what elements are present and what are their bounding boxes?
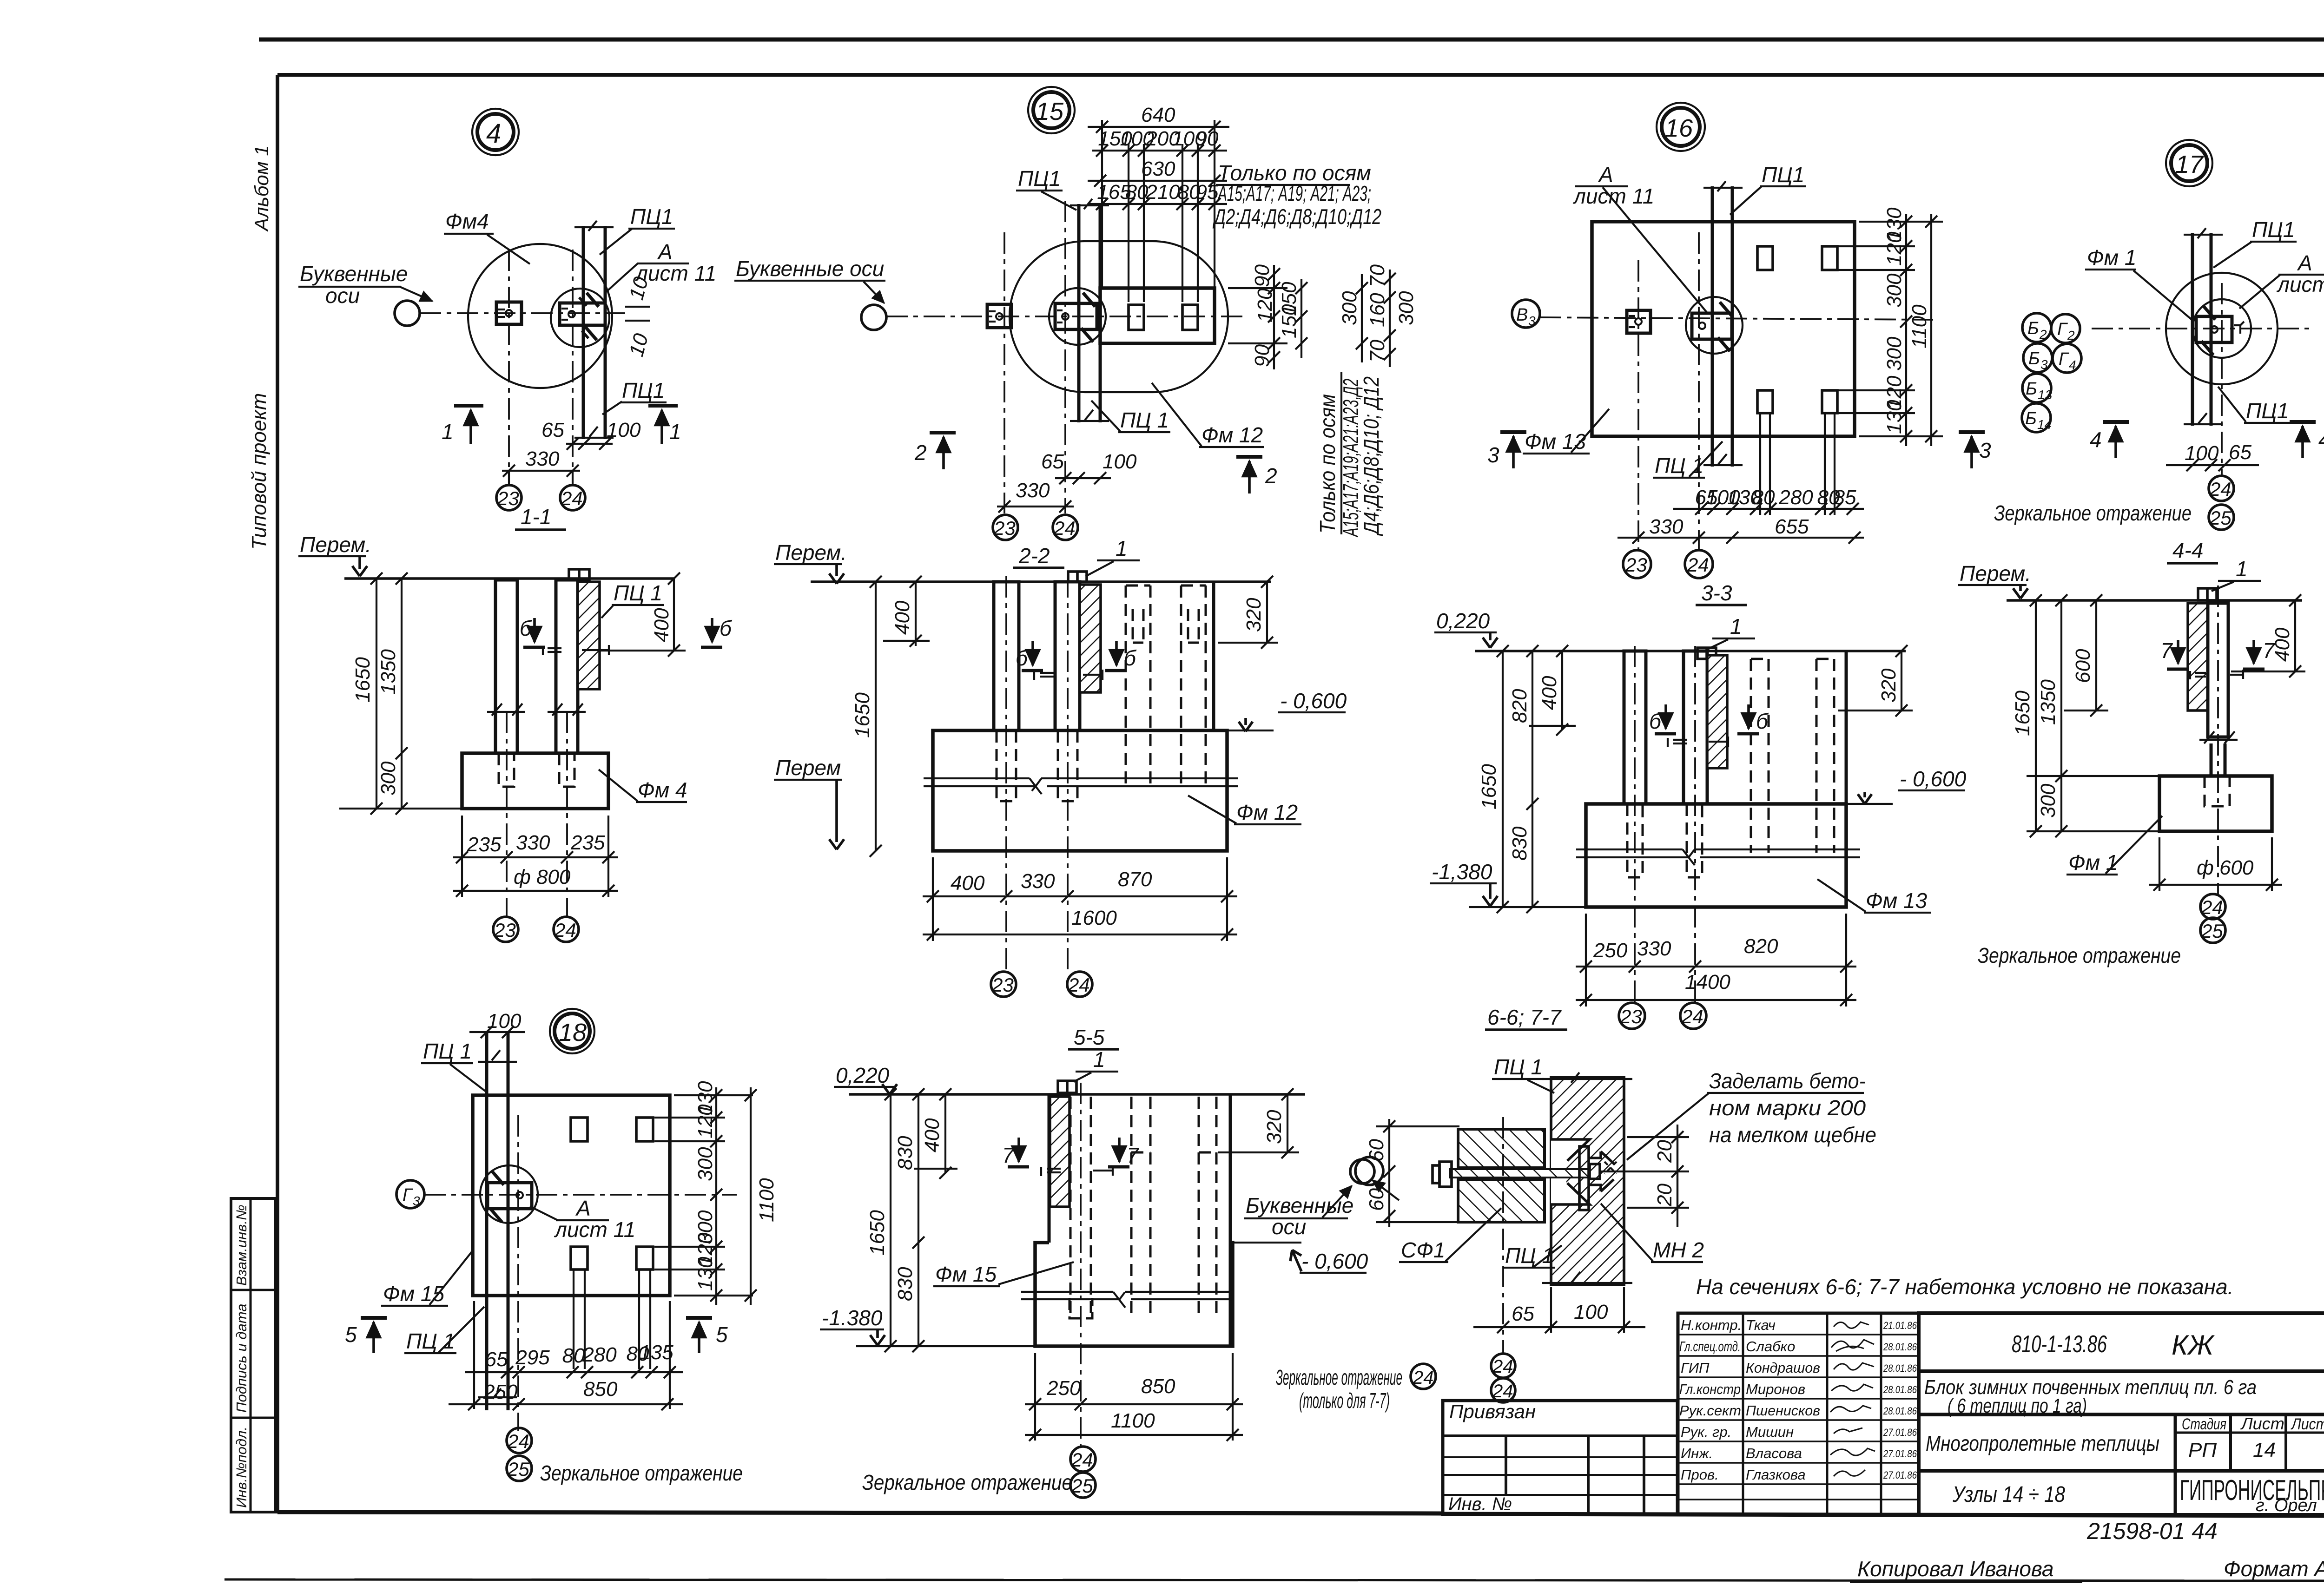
bottom dims	[1034, 1353, 1036, 1441]
svg-text:1650: 1650	[2011, 691, 2034, 736]
anchor slots dashed	[1627, 804, 1643, 877]
svg-text:Б: Б	[2025, 409, 2037, 428]
svg-text:24: 24	[1071, 1449, 1093, 1471]
svg-text:лист 11: лист 11	[1572, 184, 1654, 208]
svg-text:-1.380: -1.380	[822, 1306, 883, 1330]
svg-text:24: 24	[1492, 1381, 1513, 1401]
svg-text:5-5: 5-5	[1074, 1025, 1105, 1049]
svg-text:24: 24	[1681, 1006, 1703, 1027]
svg-text:28.01.86: 28.01.86	[1883, 1405, 1917, 1417]
svg-text:2: 2	[2039, 327, 2047, 342]
svg-text:27.01.86: 27.01.86	[1883, 1469, 1917, 1481]
joint symbols	[2190, 670, 2243, 679]
svg-text:16: 16	[1665, 114, 1693, 142]
svg-text:400: 400	[650, 608, 673, 642]
axis	[2217, 585, 2219, 895]
bolt rod	[1450, 1169, 1590, 1178]
svg-text:ПЦ1: ПЦ1	[2252, 217, 2295, 242]
svg-text:Гл.спец.отд.: Гл.спец.отд.	[1679, 1338, 1741, 1355]
svg-text:1: 1	[2236, 557, 2248, 581]
svg-text:235: 235	[467, 833, 502, 856]
axis bubbles	[493, 917, 518, 942]
svg-text:300: 300	[694, 1147, 717, 1181]
svg-text:4: 4	[486, 118, 501, 149]
svg-text:5: 5	[345, 1322, 357, 1347]
svg-text:300: 300	[1883, 336, 1906, 371]
bottom dims	[1585, 914, 1587, 1007]
СФ1 block hatched	[1458, 1129, 1545, 1168]
joint symbols	[1041, 1165, 1113, 1176]
svg-text:Инж.: Инж.	[1681, 1445, 1713, 1461]
svg-text:250: 250	[1046, 1377, 1081, 1400]
svg-text:б: б	[1649, 709, 1662, 733]
svg-text:Б: Б	[2026, 379, 2037, 399]
svg-text:Фм 12: Фм 12	[1236, 800, 1298, 824]
svg-text:Фм 12: Фм 12	[1202, 423, 1263, 447]
svg-text:1400: 1400	[1685, 971, 1730, 993]
svg-text:85: 85	[1834, 486, 1856, 509]
svg-text:135: 135	[639, 1341, 673, 1364]
svg-text:90: 90	[1196, 127, 1219, 150]
svg-text:24: 24	[554, 919, 576, 941]
svg-text:СФ1: СФ1	[1401, 1238, 1445, 1262]
svg-text:ф 800: ф 800	[514, 866, 571, 888]
svg-text:на мелком щебне: на мелком щебне	[1709, 1123, 1876, 1147]
footing	[933, 730, 1227, 851]
anchor square left	[496, 302, 522, 324]
svg-text:Заделать бето-: Заделать бето-	[1709, 1069, 1866, 1093]
svg-text:- 0,600: - 0,600	[1280, 689, 1347, 713]
svg-text:Пшенисков: Пшенисков	[1746, 1402, 1820, 1419]
svg-text:65: 65	[2229, 441, 2251, 464]
detail circle	[480, 1165, 538, 1223]
svg-text:120: 120	[1254, 288, 1276, 322]
axis bubble left	[861, 305, 886, 330]
svg-text:Г: Г	[2059, 349, 2070, 369]
svg-text:лист 11: лист 11	[2276, 272, 2324, 296]
footing	[2159, 776, 2272, 831]
svg-text:295: 295	[515, 1346, 550, 1369]
bottom dim chain	[1695, 486, 1856, 509]
svg-text:3-3: 3-3	[1701, 581, 1732, 605]
top outer rule	[259, 38, 2324, 42]
svg-text:7: 7	[2160, 638, 2173, 663]
bottom dims	[461, 816, 463, 897]
svg-text:640: 640	[1141, 104, 1175, 126]
svg-text:Фм 13: Фм 13	[1525, 429, 1586, 454]
anchor square left	[987, 304, 1011, 328]
svg-text:ГИП: ГИП	[1681, 1360, 1710, 1376]
svg-text:ПЦ 1: ПЦ 1	[423, 1039, 472, 1063]
svg-text:820: 820	[1508, 689, 1531, 723]
svg-text:7: 7	[1002, 1143, 1015, 1167]
detail circle	[1686, 297, 1743, 354]
svg-text:Буквенные оси: Буквенные оси	[736, 257, 884, 281]
svg-text:21598-01 44: 21598-01 44	[2086, 1518, 2218, 1544]
svg-text:630: 630	[1141, 158, 1175, 180]
svg-text:300: 300	[1883, 273, 1906, 308]
svg-text:Узлы 14 ÷ 18: Узлы 14 ÷ 18	[1952, 1482, 2065, 1507]
svg-text:17: 17	[2175, 151, 2204, 178]
svg-text:б: б	[520, 616, 533, 640]
columns	[994, 582, 1019, 730]
axis bubble В3	[1512, 300, 1540, 328]
svg-text:20: 20	[1653, 1140, 1676, 1163]
bubbles 24 25	[507, 1428, 532, 1453]
svg-text:б: б	[1124, 646, 1137, 670]
axis bubble Г3	[396, 1180, 424, 1208]
right dims	[2294, 600, 2296, 671]
top line	[849, 1093, 1305, 1096]
svg-text:ПЦ1: ПЦ1	[630, 204, 673, 229]
left attribute table	[231, 1198, 276, 1512]
svg-text:830: 830	[894, 1267, 917, 1301]
svg-text:1100: 1100	[1111, 1409, 1155, 1432]
svg-text:25: 25	[1071, 1475, 1093, 1497]
svg-text:1650: 1650	[866, 1210, 889, 1256]
svg-text:250: 250	[1593, 939, 1628, 962]
svg-text:Зеркальное отражение: Зеркальное отражение	[862, 1470, 1072, 1494]
svg-text:24: 24	[561, 487, 583, 509]
hatched plate	[1080, 585, 1101, 692]
svg-text:3: 3	[1528, 314, 1536, 328]
svg-text:ПЦ 1: ПЦ 1	[614, 581, 662, 605]
svg-text:400: 400	[921, 1118, 944, 1152]
ground lines	[1576, 849, 1683, 850]
hatched plate left of column	[2188, 603, 2208, 710]
svg-text:300: 300	[1395, 291, 1418, 325]
svg-text:ном марки 200: ном марки 200	[1709, 1096, 1866, 1120]
bottom dims	[932, 857, 934, 941]
svg-text:РП: РП	[2188, 1439, 2217, 1461]
main border	[277, 73, 2324, 77]
svg-text:1650: 1650	[1478, 764, 1500, 809]
svg-text:ПЦ1: ПЦ1	[1762, 163, 1804, 187]
svg-text:Фм 15: Фм 15	[935, 1262, 997, 1286]
svg-text:320: 320	[1877, 668, 1900, 703]
svg-text:ПЦ 1: ПЦ 1	[1655, 454, 1703, 478]
right edge	[1845, 651, 1848, 804]
svg-text:б: б	[1016, 646, 1029, 670]
footing	[462, 753, 608, 809]
svg-text:На сечениях 6-6; 7-7 набетон: На сечениях 6-6; 7-7 набетонка условно н…	[1696, 1275, 2233, 1299]
svg-text:65: 65	[485, 1348, 508, 1371]
svg-text:Зеркальное отражение: Зеркальное отражение	[1994, 501, 2192, 525]
axes	[1634, 646, 1636, 1002]
svg-text:90: 90	[1251, 264, 1274, 287]
svg-text:Подпись и дата: Подпись и дата	[233, 1304, 250, 1413]
top line	[1475, 650, 1906, 652]
anchor plate	[488, 1183, 532, 1209]
svg-text:23: 23	[497, 487, 519, 509]
svg-text:ПЦ 1: ПЦ 1	[1505, 1243, 1554, 1268]
svg-text:Д4;Д6;Д8;Д10; Д12: Д4;Д6;Д8;Д10; Д12	[1359, 376, 1383, 536]
svg-text:24: 24	[507, 1430, 529, 1452]
svg-text:ПЦ 1: ПЦ 1	[1494, 1055, 1543, 1079]
bottom dims	[485, 1341, 674, 1371]
anchor slots dashed	[997, 730, 1016, 801]
svg-text:Мишин: Мишин	[1746, 1424, 1794, 1440]
axis bubble left	[395, 301, 420, 326]
svg-text:95: 95	[1196, 181, 1219, 204]
svg-text:300: 300	[377, 761, 400, 796]
svg-text:15: 15	[1036, 98, 1064, 125]
svg-text:Ткач: Ткач	[1746, 1317, 1776, 1333]
dashed mirror columns	[1751, 659, 1769, 853]
svg-text:Стадия: Стадия	[2182, 1415, 2226, 1433]
bubbles	[1070, 1447, 1096, 1472]
svg-text:28.01.86: 28.01.86	[1883, 1384, 1917, 1395]
vertical axes	[1004, 232, 1005, 513]
svg-text:Г: Г	[2057, 320, 2068, 339]
svg-text:70: 70	[1366, 340, 1389, 362]
svg-text:100: 100	[607, 419, 641, 441]
svg-text:14: 14	[2037, 417, 2052, 432]
svg-text:600: 600	[2072, 649, 2094, 683]
top line	[2007, 599, 2302, 602]
horizontal axis	[420, 312, 625, 314]
svg-text:80: 80	[562, 1344, 585, 1367]
svg-text:65: 65	[1512, 1303, 1534, 1325]
svg-text:13: 13	[2038, 388, 2053, 402]
svg-text:2-2: 2-2	[1018, 544, 1050, 568]
svg-text:21.01.86: 21.01.86	[1883, 1320, 1917, 1331]
axis bubbles Б2 Г2 Б3 Г4 Б13 Б14	[2022, 313, 2051, 342]
svg-text:330: 330	[1021, 870, 1055, 893]
svg-text:ПЦ1: ПЦ1	[1018, 166, 1061, 191]
column	[2208, 603, 2228, 737]
svg-text:Буквенные: Буквенные	[1246, 1193, 1353, 1217]
svg-text:100: 100	[487, 1010, 522, 1033]
svg-text:Только по осям: Только по осям	[1315, 394, 1340, 533]
svg-text:100: 100	[1103, 450, 1137, 473]
svg-text:60: 60	[1365, 1188, 1388, 1211]
svg-text:2: 2	[914, 441, 927, 465]
left dim 1650	[376, 579, 377, 809]
right dim chain	[674, 1094, 753, 1096]
anchor plate	[2196, 316, 2232, 342]
axes down	[506, 712, 508, 916]
svg-text:ПЦ1: ПЦ1	[2246, 399, 2289, 423]
columns	[1624, 651, 1646, 804]
svg-text:Фм4: Фм4	[445, 209, 489, 233]
svg-text:Перем: Перем	[775, 756, 841, 780]
column ПЦ1	[1077, 204, 1081, 422]
detail circle	[1049, 288, 1106, 345]
svg-text:Рук. гр.: Рук. гр.	[1681, 1424, 1731, 1440]
svg-text:г. Орел: г. Орел	[2256, 1496, 2317, 1515]
svg-text:400: 400	[951, 872, 985, 895]
svg-text:830: 830	[894, 1136, 917, 1170]
svg-text:27.01.86: 27.01.86	[1883, 1427, 1917, 1438]
svg-text:28.01.86: 28.01.86	[1883, 1362, 1917, 1374]
svg-text:24: 24	[1053, 517, 1076, 539]
vertical axis 23	[508, 250, 510, 485]
svg-text:830: 830	[1508, 826, 1531, 861]
plan plate Фм13	[1592, 222, 1855, 436]
svg-text:25: 25	[2209, 507, 2232, 529]
hatched plate (left) + dashed column	[1050, 1097, 1070, 1207]
svg-text:Перем.: Перем.	[775, 540, 847, 565]
privyazan box	[1443, 1401, 1677, 1514]
svg-text:Власова: Власова	[1746, 1445, 1802, 1461]
Фм12 plate	[1100, 288, 1215, 343]
svg-text:18: 18	[559, 1019, 587, 1046]
svg-text:6-6; 7-7: 6-6; 7-7	[1487, 1005, 1562, 1029]
vertical axis 24	[572, 250, 574, 485]
left dims	[1502, 651, 1504, 907]
svg-text:Лист: Лист	[2240, 1414, 2284, 1433]
anchor plate with bolt	[560, 303, 605, 325]
svg-text:330: 330	[525, 447, 560, 470]
svg-text:Н.контр.: Н.контр.	[1681, 1317, 1742, 1333]
svg-text:80: 80	[1752, 486, 1775, 509]
svg-text:23: 23	[993, 517, 1016, 539]
svg-text:Взам.инв.№: Взам.инв.№	[233, 1204, 250, 1286]
svg-text:1600: 1600	[1071, 907, 1117, 929]
node bubble 4	[472, 109, 519, 155]
svg-text:Инв.№подл.: Инв.№подл.	[233, 1427, 250, 1508]
svg-text:(только для 7-7): (только для 7-7)	[1299, 1388, 1390, 1413]
svg-text:25: 25	[2201, 920, 2223, 942]
svg-text:65: 65	[1041, 450, 1064, 473]
svg-text:27.01.86: 27.01.86	[1883, 1448, 1917, 1460]
svg-text:3: 3	[1487, 443, 1499, 467]
svg-text:130: 130	[694, 1256, 717, 1291]
svg-text:7: 7	[1127, 1143, 1139, 1167]
320 dim right	[1266, 582, 1268, 643]
svg-text:ПЦ 1: ПЦ 1	[406, 1329, 455, 1353]
svg-text:Зеркальное отражение: Зеркальное отражение	[1978, 943, 2181, 967]
svg-text:Слабко: Слабко	[1746, 1338, 1795, 1355]
top line	[811, 580, 1271, 583]
svg-text:330: 330	[516, 831, 550, 854]
svg-text:А15;А17; А19; А21; А23;: А15;А17; А19; А21; А23;	[1217, 181, 1371, 205]
svg-text:4-4: 4-4	[2172, 538, 2203, 562]
column ПЦ1	[1711, 186, 1714, 467]
svg-text:лист 11: лист 11	[554, 1217, 635, 1242]
4 holes	[1757, 246, 1773, 270]
svg-text:130: 130	[1883, 400, 1906, 434]
footing	[1035, 1243, 1233, 1346]
svg-text:65: 65	[541, 419, 564, 441]
svg-text:Формат А2: Формат А2	[2224, 1557, 2324, 1581]
svg-text:100: 100	[1574, 1301, 1608, 1323]
section mark 1 right	[648, 404, 678, 408]
svg-text:1: 1	[1093, 1047, 1105, 1072]
axis	[1080, 1083, 1082, 1447]
svg-text:Буквенные: Буквенные	[300, 262, 408, 286]
svg-text:б: б	[1756, 709, 1769, 733]
svg-text:Зеркальное отражение: Зеркальное отражение	[1276, 1365, 1402, 1389]
svg-text:1: 1	[1730, 614, 1742, 638]
pedestal right edge	[1229, 1094, 1232, 1346]
400 dim right	[673, 579, 675, 651]
МН2 anchor	[1579, 1146, 1589, 1210]
svg-text:4: 4	[2069, 358, 2076, 372]
svg-text:870: 870	[1118, 868, 1152, 891]
top level line	[344, 577, 675, 580]
svg-text:5: 5	[716, 1322, 728, 1347]
hatched plate ПЦ1	[578, 582, 600, 689]
axis circle left	[1350, 1159, 1374, 1184]
svg-text:ф 600: ф 600	[2197, 856, 2254, 879]
svg-text:2: 2	[2067, 328, 2075, 342]
svg-text:Миронов: Миронов	[1746, 1381, 1805, 1397]
ground double line with joggle	[924, 777, 1030, 779]
node bubble 18	[550, 1009, 594, 1053]
axes	[2092, 328, 2309, 329]
svg-text:150: 150	[1278, 304, 1301, 338]
circles	[2166, 273, 2278, 384]
svg-text:24: 24	[1413, 1368, 1434, 1388]
svg-text:1-1: 1-1	[521, 505, 551, 529]
bolt on right column	[569, 569, 589, 580]
svg-text:Гл.констр: Гл.констр	[1679, 1381, 1741, 1397]
svg-text:320: 320	[1263, 1110, 1286, 1144]
svg-text:3: 3	[2040, 357, 2048, 372]
column	[485, 1032, 489, 1410]
svg-text:А: А	[2297, 251, 2312, 275]
svg-text:300: 300	[1338, 291, 1361, 325]
detail circle A	[551, 289, 609, 347]
svg-text:Перем.: Перем.	[1960, 561, 2031, 585]
anchor plate	[1692, 313, 1732, 339]
svg-text:24: 24	[2201, 896, 2223, 918]
svg-text:23: 23	[991, 974, 1014, 996]
svg-text:160: 160	[1366, 293, 1389, 327]
svg-text:60: 60	[1365, 1139, 1388, 1162]
svg-text:Кондрашов: Кондрашов	[1746, 1360, 1820, 1376]
anchor slots dashed	[499, 753, 514, 787]
svg-text:300: 300	[2037, 783, 2060, 818]
joint symbols	[543, 645, 609, 655]
svg-text:Фм 15: Фм 15	[383, 1282, 444, 1306]
svg-text:1: 1	[442, 420, 454, 444]
svg-text:25: 25	[507, 1458, 529, 1480]
svg-text:235: 235	[570, 831, 605, 854]
right part	[1919, 1313, 2324, 1515]
svg-text:250: 250	[483, 1381, 518, 1403]
svg-text:ПЦ 1: ПЦ 1	[1120, 408, 1169, 432]
pedestal right edge	[1212, 582, 1215, 730]
anchor square	[1627, 310, 1651, 333]
node bubble 15	[1028, 87, 1075, 133]
svg-text:80: 80	[1126, 181, 1149, 204]
svg-text:23: 23	[494, 919, 516, 941]
signatures table	[1678, 1313, 1919, 1514]
svg-text:Копировал Иванова: Копировал Иванова	[1857, 1557, 2054, 1581]
svg-text:820: 820	[1744, 935, 1778, 958]
svg-text:б: б	[720, 616, 733, 640]
signature scribbles	[1830, 1322, 1875, 1476]
svg-text:ПЦ1: ПЦ1	[622, 378, 665, 402]
foundation circle Фм4	[468, 244, 612, 388]
svg-text:2: 2	[1265, 464, 1277, 488]
svg-text:А: А	[657, 240, 673, 264]
svg-text:23: 23	[1625, 554, 1647, 576]
column	[2191, 233, 2194, 426]
svg-text:20: 20	[1653, 1184, 1676, 1207]
dashed mirror columns	[1126, 585, 1150, 785]
svg-text:24: 24	[1687, 554, 1709, 576]
svg-text:320: 320	[1242, 598, 1265, 632]
svg-text:- 0,600: - 0,600	[1301, 1249, 1368, 1273]
bottom thin rule	[224, 1579, 2324, 1581]
svg-text:Г: Г	[403, 1185, 414, 1205]
svg-text:400: 400	[891, 600, 914, 635]
svg-text:90: 90	[1251, 344, 1274, 367]
